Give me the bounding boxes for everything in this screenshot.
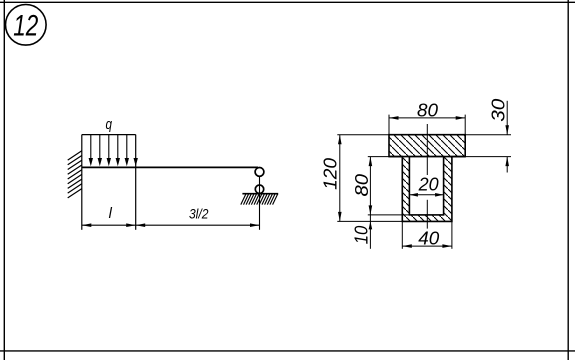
- dim 80 top extension lines: [388, 115, 390, 135]
- dim 80 top line: [389, 117, 465, 119]
- svg-text:40: 40: [418, 228, 440, 249]
- roller support bottom circle: [255, 185, 263, 193]
- dimension arrow at roller: [250, 223, 260, 227]
- dim 40 extension lines: [401, 221, 403, 248]
- section right wall hatching: [444, 157, 452, 215]
- dim 80 left extension lines: [368, 156, 389, 158]
- roller support ground hatching: [241, 194, 278, 205]
- border frame top line: [0, 1, 575, 3]
- section bottom wall hatching: [402, 215, 452, 222]
- section outer outline: [389, 135, 465, 222]
- dim 20 line: [409, 194, 443, 196]
- svg-text:q: q: [105, 117, 112, 133]
- dim 10 line tail: [369, 215, 371, 249]
- dim 80 left line: [369, 157, 371, 215]
- distributed load arrows: [90, 135, 92, 160]
- section left wall hatching: [402, 157, 409, 215]
- svg-text:120: 120: [320, 157, 341, 190]
- svg-text:80: 80: [351, 173, 372, 196]
- dim 40 line: [402, 245, 452, 247]
- section flange hatching: [389, 135, 465, 157]
- svg-text:80: 80: [417, 99, 439, 120]
- distributed load q outline top: [82, 134, 136, 136]
- roller support link and right extension line: [259, 176, 261, 230]
- dim 30 extension lines: [465, 134, 511, 136]
- svg-text:30: 30: [487, 98, 508, 122]
- beam dimension line: [82, 224, 260, 226]
- beam: [82, 166, 258, 168]
- dimension arrows at load end: [126, 223, 136, 227]
- fixed support wall line / left extension line: [81, 135, 83, 230]
- svg-text:10: 10: [350, 225, 371, 244]
- roller support ground line: [242, 193, 278, 195]
- section cavity outline: [409, 157, 443, 215]
- fixed support wall hatching: [68, 151, 82, 198]
- dim 30 line: [506, 101, 508, 135]
- dim 120 extension lines: [337, 134, 389, 136]
- border frame left line: [3, 0, 5, 360]
- border frame bottom line: [0, 350, 575, 352]
- dim 120 line: [339, 135, 341, 222]
- task number circle: [6, 5, 47, 46]
- distributed load right edge / middle extension line: [135, 135, 137, 230]
- dimension arrows at wall: [82, 223, 92, 227]
- svg-text:12: 12: [13, 10, 38, 43]
- roller support top circle: [255, 168, 264, 177]
- section flange bottom line across: [389, 156, 465, 158]
- section vertical centerline: [426, 124, 428, 175]
- svg-text:3l/2: 3l/2: [189, 205, 209, 221]
- svg-text:20: 20: [418, 174, 440, 195]
- border frame right line: [567, 0, 569, 360]
